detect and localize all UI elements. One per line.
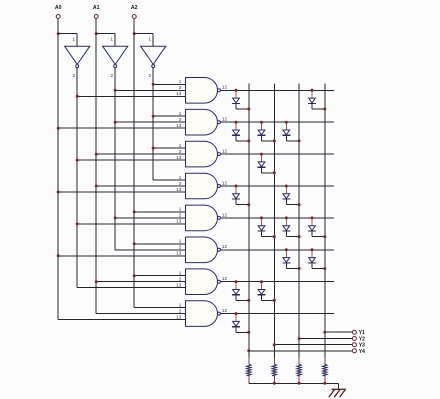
svg-text:Y2: Y2 — [359, 337, 365, 343]
junction diode D8 cathode on column — [298, 203, 301, 206]
wire tap to gate U5 pin 2 — [115, 121, 185, 123]
diode D3 — [232, 123, 249, 141]
junction on bus at x=115.2 y=90.3 — [114, 89, 117, 92]
svg-text:13: 13 — [176, 219, 182, 224]
svg-text:2: 2 — [179, 308, 182, 313]
wire inverted A2 vertical bus — [152, 68, 154, 180]
wire ground rail — [249, 382, 339, 384]
output terminal Y4 — [352, 349, 365, 355]
svg-text:1: 1 — [179, 79, 182, 84]
junction diode D12 cathode on column — [298, 267, 301, 270]
wire matrix column 3 — [298, 84, 300, 358]
svg-text:13: 13 — [176, 123, 182, 128]
wire gate U8 output row — [221, 217, 335, 219]
junction diode D16 cathode on column — [247, 331, 250, 334]
diode D12 — [282, 250, 299, 268]
junction diode D6 anode on row — [260, 153, 263, 156]
junction on bus at x=96.2 y=281.7 — [95, 280, 98, 283]
svg-text:1: 1 — [179, 271, 182, 276]
wire tap to gate U4 pin 2 — [115, 89, 185, 91]
NAND gate U11 — [176, 301, 227, 327]
wire output Y2 — [299, 338, 352, 340]
NAND gate U10 — [176, 269, 227, 295]
diode D2 — [308, 91, 325, 109]
wire A0 vertical bus — [57, 19, 59, 320]
wire gate U7 output row — [221, 185, 335, 187]
wire tap to gate U6 pin 13 — [77, 159, 185, 161]
wire tap to gate U11 pin 13 — [58, 319, 185, 321]
svg-text:1: 1 — [179, 143, 182, 148]
junction diode D11 cathode on column — [323, 235, 326, 238]
svg-text:Y4: Y4 — [359, 349, 365, 355]
resistor R3 — [297, 364, 301, 376]
wire tap to gate U10 pin 1 — [134, 275, 185, 277]
junction diode D12 anode on row — [285, 248, 288, 251]
svg-text:1: 1 — [110, 36, 113, 41]
junction on bus at x=96.2 y=186 — [95, 185, 98, 188]
svg-text:13: 13 — [176, 283, 182, 288]
NAND gate U5 — [176, 109, 227, 135]
svg-text:1: 1 — [179, 175, 182, 180]
junction diode D10 anode on row — [285, 216, 288, 219]
NAND gate U4 — [176, 78, 227, 104]
diode D9 — [258, 218, 275, 236]
inverter U3 — [141, 36, 166, 77]
svg-text:2: 2 — [72, 73, 75, 78]
junction diode D4 anode on row — [260, 121, 263, 124]
resistor R1 — [247, 364, 251, 376]
wire tap to gate U9 pin 1 — [134, 243, 185, 245]
junction diode D15 anode on row — [260, 280, 263, 283]
junction diode D10 cathode on column — [298, 235, 301, 238]
wire gate U4 output row — [221, 89, 335, 91]
svg-text:1: 1 — [148, 36, 151, 41]
junction diode D9 anode on row — [260, 216, 263, 219]
diode D4 — [258, 123, 275, 141]
svg-text:2: 2 — [179, 181, 182, 186]
junction Y4 on column — [247, 349, 250, 352]
junction diode D14 cathode on column — [247, 299, 250, 302]
junction on bus at x=77.2 y=96.3 — [76, 95, 79, 98]
svg-text:12: 12 — [222, 149, 228, 154]
junction Y2 on column — [298, 337, 301, 340]
output terminal Y2 — [352, 337, 365, 343]
junction on bus at x=96.2 y=154.1 — [95, 153, 98, 156]
svg-text:Y3: Y3 — [359, 343, 365, 349]
wire matrix column 4 — [324, 84, 326, 358]
wire tap to gate U11 pin 2 — [96, 313, 185, 315]
junction on bus at x=77.2 y=160.1 — [76, 159, 79, 162]
diode D1 — [232, 91, 249, 109]
svg-text:2: 2 — [179, 149, 182, 154]
junction A1 inverter branch — [95, 32, 98, 35]
junction rail at column — [298, 382, 301, 385]
svg-text:13: 13 — [176, 91, 182, 96]
wire tap to gate U11 pin 1 — [134, 307, 185, 309]
wire gate U9 output row — [221, 249, 335, 251]
wire output Y1 — [325, 331, 353, 333]
wire tap to gate U10 pin 13 — [77, 287, 185, 289]
svg-text:A1: A1 — [93, 5, 100, 11]
diode D5 — [282, 123, 299, 141]
diode D6 — [258, 155, 275, 173]
svg-text:13: 13 — [176, 314, 182, 319]
junction rail at column — [323, 382, 326, 385]
junction on bus at x=58.2 y=255.8 — [57, 254, 60, 257]
wire A1 to inverter input — [96, 33, 115, 35]
wire tap to gate U6 pin 2 — [96, 153, 185, 155]
resistor R4 — [323, 364, 327, 376]
NAND gate U8 — [176, 205, 227, 231]
diode D11 — [308, 218, 325, 236]
wire matrix column 1 — [248, 84, 250, 358]
diode D7 — [232, 187, 249, 205]
svg-text:1: 1 — [179, 239, 182, 244]
wire tap to gate U5 pin 1 — [153, 115, 185, 117]
wire resistor R2 to rail — [273, 382, 275, 383]
diode D13 — [308, 250, 325, 268]
junction A2 inverter branch — [133, 32, 136, 35]
wire resistor R3 to rail — [298, 382, 300, 383]
wire tap to gate U7 pin 13 — [58, 191, 185, 193]
junction A0 inverter branch — [57, 32, 60, 35]
wire resistor R4 to rail — [324, 382, 326, 383]
junction diode D4 cathode on column — [273, 139, 276, 142]
NAND gate U9 — [176, 237, 227, 263]
svg-text:12: 12 — [222, 180, 228, 185]
junction Y1 on column — [323, 331, 326, 334]
wire output Y4 — [249, 350, 352, 352]
wire tap to gate U7 pin 2 — [96, 185, 185, 187]
wire tap to gate U7 pin 1 — [153, 179, 185, 181]
wire output Y3 — [274, 344, 352, 346]
diode D15 — [258, 282, 275, 300]
wire gate U5 output row — [221, 121, 335, 123]
junction diode D13 anode on row — [311, 248, 314, 251]
input terminal A1 — [93, 5, 100, 19]
wire gate U10 output row — [221, 281, 335, 283]
svg-text:13: 13 — [176, 187, 182, 192]
svg-text:2: 2 — [148, 73, 151, 78]
wire matrix column 2 — [273, 84, 275, 358]
junction diode D9 cathode on column — [273, 235, 276, 238]
junction diode D11 anode on row — [311, 216, 314, 219]
wire resistor R1 to rail — [248, 382, 250, 383]
svg-text:2: 2 — [179, 117, 182, 122]
input terminal A0 — [55, 5, 62, 19]
diode D14 — [232, 282, 249, 300]
junction diode D5 cathode on column — [298, 139, 301, 142]
wire tap to gate U6 pin 1 — [153, 147, 185, 149]
wire tap to gate U5 pin 13 — [58, 127, 185, 129]
wire A0 to inverter input — [58, 33, 77, 35]
diode D8 — [282, 187, 299, 205]
junction on bus at x=115.2 y=217.9 — [114, 216, 117, 219]
junction diode D6 cathode on column — [273, 171, 276, 174]
svg-text:12: 12 — [222, 85, 228, 90]
diode D16 — [232, 314, 249, 332]
svg-text:Y1: Y1 — [359, 330, 365, 336]
wire tap to gate U8 pin 13 — [77, 223, 185, 225]
junction on bus at x=153.2 y=116.2 — [152, 115, 155, 118]
wire inverted A1 vertical bus — [114, 68, 116, 250]
junction on bus at x=153.2 y=148.1 — [152, 147, 155, 150]
wire tap to gate U4 pin 13 — [77, 95, 185, 97]
svg-text:12: 12 — [222, 117, 228, 122]
wire tap to gate U10 pin 2 — [96, 281, 185, 283]
wire tap to gate U8 pin 2 — [115, 217, 185, 219]
svg-text:13: 13 — [176, 251, 182, 256]
junction on bus at x=58.2 y=192 — [57, 191, 60, 194]
inverter U2 — [103, 36, 128, 77]
svg-text:12: 12 — [222, 212, 228, 217]
junction diode D3 cathode on column — [247, 139, 250, 142]
wire A2 vertical bus — [133, 19, 135, 308]
junction diode D7 anode on row — [235, 185, 238, 188]
wire gate U6 output row — [221, 153, 335, 155]
inverter U1 — [65, 36, 90, 77]
svg-text:2: 2 — [110, 73, 113, 78]
svg-text:2: 2 — [179, 85, 182, 90]
NAND gate U6 — [176, 141, 227, 167]
junction rail at column — [273, 382, 276, 385]
junction diode D15 cathode on column — [273, 299, 276, 302]
ground — [329, 389, 346, 397]
wire inverted A0 vertical bus — [76, 68, 78, 288]
resistor R2 — [272, 364, 276, 376]
junction diode D1 cathode on column — [247, 108, 250, 111]
junction on bus at x=134.2 y=275.7 — [133, 274, 136, 277]
wire tap to gate U4 pin 1 — [153, 83, 185, 85]
junction diode D7 cathode on column — [247, 203, 250, 206]
junction diode D16 anode on row — [235, 312, 238, 315]
svg-text:2: 2 — [179, 245, 182, 250]
svg-text:1: 1 — [179, 207, 182, 212]
junction diode D14 anode on row — [235, 280, 238, 283]
svg-text:13: 13 — [176, 155, 182, 160]
wire A2 to inverter input — [134, 33, 153, 35]
output terminal Y1 — [352, 330, 365, 336]
junction diode D13 cathode on column — [323, 267, 326, 270]
wire tap to gate U9 pin 13 — [58, 255, 185, 257]
wire rail to ground — [338, 383, 340, 389]
wire gate U11 output row — [221, 313, 335, 315]
NAND gate U7 — [176, 173, 227, 199]
svg-text:12: 12 — [222, 244, 228, 249]
junction diode D2 cathode on column — [323, 108, 326, 111]
svg-text:1: 1 — [72, 36, 75, 41]
output terminal Y3 — [352, 343, 365, 349]
junction on bus at x=153.2 y=84.3 — [152, 83, 155, 86]
svg-text:A0: A0 — [55, 5, 62, 11]
svg-text:1: 1 — [179, 111, 182, 116]
junction on bus at x=77.2 y=223.9 — [76, 222, 79, 225]
junction diode D5 anode on row — [285, 121, 288, 124]
wire tap to gate U9 pin 2 — [115, 249, 185, 251]
svg-text:12: 12 — [222, 308, 228, 313]
svg-text:1: 1 — [179, 302, 182, 307]
junction on bus at x=134.2 y=211.9 — [133, 210, 136, 213]
input terminal A2 — [131, 5, 138, 19]
junction diode D1 anode on row — [235, 89, 238, 92]
wire tap to gate U8 pin 1 — [134, 211, 185, 213]
svg-text:12: 12 — [222, 276, 228, 281]
junction on bus at x=134.2 y=243.8 — [133, 242, 136, 245]
diode D10 — [282, 218, 299, 236]
svg-text:2: 2 — [179, 213, 182, 218]
wire A1 vertical bus — [95, 19, 97, 314]
junction diode D8 anode on row — [285, 185, 288, 188]
junction diode D3 anode on row — [235, 121, 238, 124]
junction on bus at x=58.2 y=128.2 — [57, 127, 60, 130]
svg-text:A2: A2 — [131, 5, 138, 11]
junction diode D2 anode on row — [311, 89, 314, 92]
junction Y3 on column — [273, 343, 276, 346]
junction on bus at x=115.2 y=122.2 — [114, 121, 117, 124]
svg-text:2: 2 — [179, 277, 182, 282]
